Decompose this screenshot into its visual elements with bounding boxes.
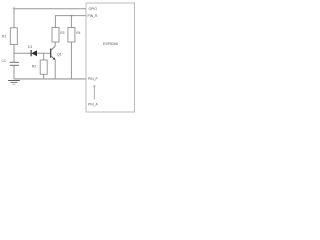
svg-text:PIN_R: PIN_R [88,14,99,18]
resistor R3 [52,28,59,43]
wire [14,78,86,80]
svg-text:R2: R2 [32,64,36,68]
capacitor C1 [2,59,20,66]
svg-text:ESP8266: ESP8266 [103,42,118,46]
wire [54,42,56,46]
svg-text:GPIO: GPIO [89,7,98,11]
wire [14,9,86,28]
svg-text:D1: D1 [28,45,32,49]
transistor Q1 [51,46,62,60]
wire [70,42,72,79]
wire [55,16,86,28]
wire [14,52,51,54]
node arrow inside IC [93,86,96,99]
svg-text:C1: C1 [2,59,6,63]
wire [54,59,56,79]
resistor R4 [68,16,81,42]
svg-text:R1: R1 [2,34,6,38]
resistor R1 [10,28,17,45]
junction [71,15,73,17]
svg-text:PIN_P: PIN_P [88,77,99,81]
resistor R2 [32,53,47,79]
svg-text:PIN_A: PIN_A [88,103,99,107]
svg-text:R4: R4 [76,31,80,35]
IC U1 [86,3,135,112]
wire stub at corner [13,7,15,9]
diode D1 [28,45,37,57]
svg-text:R3: R3 [60,31,64,35]
wire [13,45,15,63]
ground [8,81,20,85]
wire [13,65,15,79]
svg-text:Q1: Q1 [57,53,62,57]
